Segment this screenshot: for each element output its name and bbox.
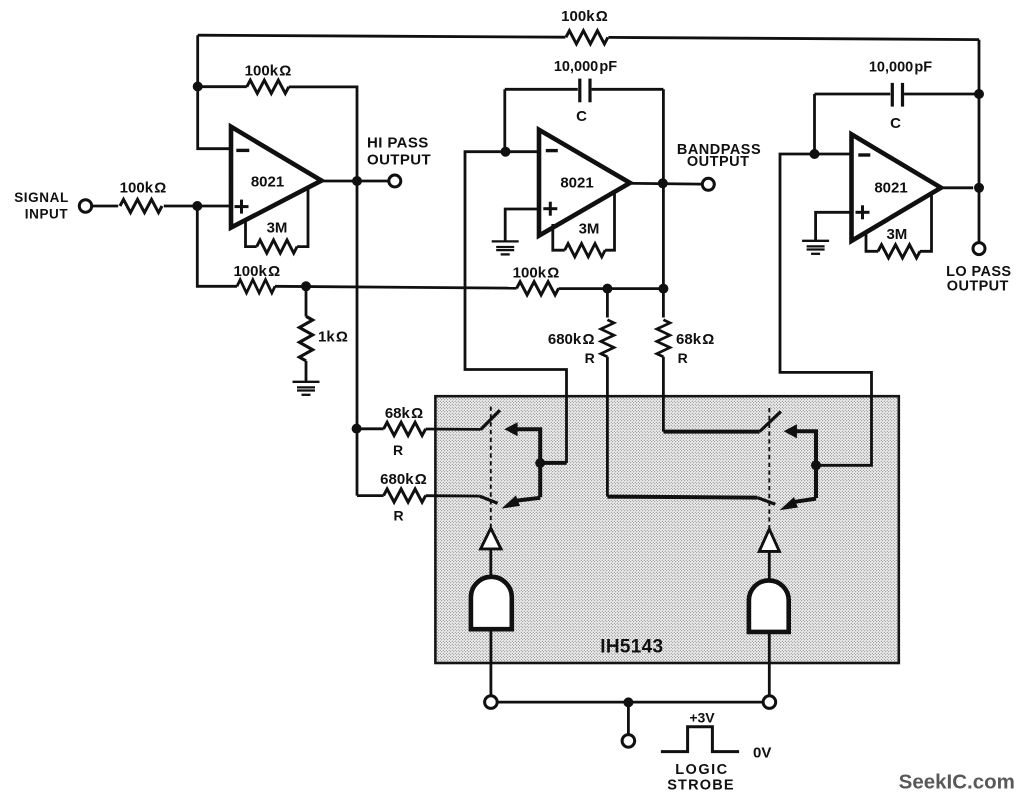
svg-text:SIGNAL: SIGNAL bbox=[14, 190, 69, 205]
resistor 680k horizontal bbox=[357, 494, 384, 497]
switch S2 lower arrow bbox=[780, 497, 798, 510]
svg-text:3M: 3M bbox=[267, 220, 288, 237]
gate driver S2 bbox=[749, 580, 789, 632]
node: feedback tap bbox=[193, 82, 203, 92]
capacitor C op3 plates bbox=[891, 83, 894, 107]
svg-text:R: R bbox=[393, 442, 403, 458]
node: op2 out to divider bbox=[658, 284, 668, 294]
resistor 3M (op1) bbox=[246, 220, 257, 247]
svg-text:R: R bbox=[394, 507, 404, 523]
svg-text:C: C bbox=[576, 108, 587, 125]
op-amp U1 8021 bbox=[231, 127, 322, 228]
svg-text:100k Ω: 100k Ω bbox=[233, 263, 280, 280]
resistor 680k vertical bbox=[606, 289, 609, 318]
resistor 1k vertical bbox=[305, 286, 308, 316]
dashed control line S2 bbox=[768, 408, 770, 528]
svg-text:680k Ω: 680k Ω bbox=[548, 331, 595, 348]
logic strobe waveform bbox=[661, 727, 739, 752]
wire: op1 100k feedback branch bbox=[198, 85, 247, 88]
svg-text:3M: 3M bbox=[579, 220, 600, 237]
terminal: hi pass output bbox=[389, 175, 401, 187]
switch S1 lower lead bbox=[480, 496, 498, 503]
ground (1k) bbox=[293, 382, 320, 395]
svg-text:R: R bbox=[585, 350, 595, 366]
switch S2 arm bbox=[760, 412, 781, 432]
svg-text:IH5143: IH5143 bbox=[600, 637, 663, 658]
wire: gate S2 to strobe terminal bbox=[768, 632, 771, 696]
wire: op1 plus down to divider bbox=[197, 206, 237, 286]
node: op3 minus cap tap bbox=[810, 149, 820, 159]
wire: op1 out down to switch resistors bbox=[356, 181, 359, 496]
resistor 68k horizontal bbox=[357, 427, 384, 430]
wire: op1 output bbox=[322, 180, 389, 183]
dashed control line S1 bbox=[490, 407, 492, 528]
svg-text:680k Ω: 680k Ω bbox=[380, 471, 427, 488]
resistor 100k (input) bbox=[120, 199, 162, 212]
wire: 68k vert into switch S2 bbox=[663, 430, 759, 434]
wire: 680k vert into switch S2 lower bbox=[607, 497, 757, 498]
terminal: strobe stub bbox=[622, 735, 635, 748]
terminal: strobe left bbox=[485, 696, 498, 709]
switch S1 arm bbox=[481, 410, 500, 429]
terminal: lo pass output bbox=[973, 243, 985, 255]
capacitor C (op2) wires bbox=[505, 88, 578, 91]
wire: S2 lower contact link bbox=[795, 499, 816, 502]
svg-text:OUTPUT: OUTPUT bbox=[367, 152, 431, 169]
wire: gate S1 to strobe terminal bbox=[489, 629, 492, 696]
wire: op3 plus to ground bbox=[816, 212, 852, 240]
svg-text:8021: 8021 bbox=[874, 180, 907, 197]
svg-text:8021: 8021 bbox=[560, 175, 593, 192]
capacitor C (op3) wires bbox=[815, 93, 891, 96]
node: divider/680k tap bbox=[602, 284, 612, 294]
wire: op3 minus input net bbox=[780, 154, 872, 465]
resistor 3M (op2) bbox=[553, 224, 565, 250]
node: op2 minus cap tap bbox=[501, 147, 511, 157]
wire: S1 upper contact bbox=[517, 429, 541, 497]
svg-text:10,000 pF: 10,000 pF bbox=[869, 60, 932, 76]
svg-text:SeekIC.com: SeekIC.com bbox=[899, 771, 1015, 794]
svg-text:100k Ω: 100k Ω bbox=[245, 62, 292, 79]
svg-text:100k Ω: 100k Ω bbox=[513, 264, 560, 281]
wire: op2 output bbox=[630, 182, 702, 186]
resistor 100k (op1 feedback) bbox=[247, 80, 289, 93]
node: op1 plus junction bbox=[192, 201, 202, 211]
wire: strobe stub bbox=[627, 702, 630, 734]
wire: buffer to gate S2 bbox=[768, 551, 771, 581]
node: op3 output bbox=[974, 183, 984, 193]
wire: S1 lower contact link bbox=[517, 498, 541, 501]
svg-text:3M: 3M bbox=[886, 226, 907, 243]
svg-text:8021: 8021 bbox=[251, 173, 284, 190]
IH5143 analog switch box bbox=[435, 396, 898, 663]
switch S1 upper arrow bbox=[504, 422, 517, 436]
svg-text:C: C bbox=[890, 115, 901, 132]
wire: divider right bbox=[559, 287, 664, 290]
wire: op2 plus to ground bbox=[505, 209, 539, 241]
wire: left vertical into op1 minus bbox=[198, 35, 232, 149]
node: op2 output bbox=[658, 178, 668, 188]
node: strobe tap bbox=[623, 697, 633, 707]
wire: right vertical (top wire to lo pass) bbox=[978, 40, 981, 243]
wire: buffer to gate S1 bbox=[489, 549, 492, 578]
op-amp U2 8021 bbox=[539, 130, 630, 236]
node: cap3 right to top wire bbox=[974, 89, 984, 99]
svg-text:STROBE: STROBE bbox=[667, 778, 735, 794]
wire: op3 output bbox=[941, 186, 973, 189]
resistor 100k (divider b) bbox=[517, 282, 559, 295]
switch S2 lower lead bbox=[757, 498, 775, 505]
svg-text:+3V: +3V bbox=[689, 709, 715, 725]
wire: strobe bus bbox=[497, 701, 763, 704]
svg-text:LOGIC: LOGIC bbox=[675, 762, 728, 778]
node: 68k horizontal tap bbox=[352, 424, 362, 434]
wire: op2 cap right leg / output vertical bbox=[662, 89, 665, 288]
svg-text:INPUT: INPUT bbox=[25, 207, 69, 222]
svg-text:HI PASS: HI PASS bbox=[367, 135, 429, 152]
svg-text:100k Ω: 100k Ω bbox=[561, 8, 608, 25]
wire: top feedback (lo-pass to op1 minus) bbox=[198, 35, 566, 37]
svg-text:OUTPUT: OUTPUT bbox=[947, 278, 1009, 294]
ground (op3 plus) bbox=[802, 241, 829, 254]
svg-text:0V: 0V bbox=[753, 744, 771, 761]
op-amp U3 8021 bbox=[852, 134, 942, 241]
resistor 100k (divider a) bbox=[237, 280, 275, 293]
wire: S1 common out bbox=[540, 461, 567, 465]
wire: S2 upper contact bbox=[796, 431, 816, 498]
node: op1 output bbox=[352, 176, 362, 186]
wire: divider mid bbox=[275, 286, 517, 288]
node: S2 common bbox=[811, 460, 821, 470]
node: 1k tap bbox=[301, 281, 311, 291]
terminal: strobe right bbox=[763, 696, 776, 709]
svg-text:10,000 pF: 10,000 pF bbox=[554, 59, 617, 75]
buffer triangle S2 bbox=[759, 529, 779, 551]
resistor 3M (op3) bbox=[866, 233, 878, 252]
wire: signal input to op1 plus bbox=[92, 205, 118, 208]
svg-text:1k Ω: 1k Ω bbox=[318, 329, 348, 346]
switch S1 lower arrow bbox=[502, 495, 520, 508]
resistor 100k (top feedback) bbox=[566, 31, 608, 44]
capacitor C op2 plates bbox=[578, 79, 581, 103]
buffer triangle S1 bbox=[481, 528, 501, 549]
svg-text:100k Ω: 100k Ω bbox=[120, 180, 167, 197]
terminal: bandpass output bbox=[702, 178, 714, 190]
terminal: signal input bbox=[79, 200, 91, 212]
ground (op2 plus) bbox=[492, 241, 519, 254]
switch S2 upper arrow bbox=[784, 424, 797, 438]
svg-text:68k Ω: 68k Ω bbox=[385, 405, 423, 422]
svg-text:R: R bbox=[678, 350, 688, 366]
node: S1 common bbox=[535, 458, 545, 468]
wire: op2 minus input net bbox=[465, 152, 567, 463]
gate driver S1 bbox=[471, 577, 512, 629]
resistor 68k vertical bbox=[662, 289, 665, 318]
svg-text:68k Ω: 68k Ω bbox=[676, 331, 714, 348]
svg-text:OUTPUT: OUTPUT bbox=[687, 154, 750, 170]
